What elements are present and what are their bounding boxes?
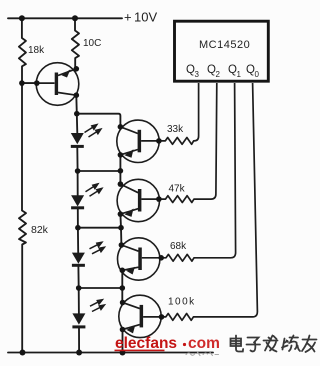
svg-text:33k: 33k	[167, 124, 184, 135]
svg-text:MC14520: MC14520	[199, 39, 250, 51]
svg-text:+: +	[124, 10, 132, 25]
svg-text:3: 3	[195, 70, 200, 79]
svg-text:elecfans: elecfans	[115, 335, 177, 352]
svg-text:2: 2	[216, 70, 221, 79]
svg-text:1: 1	[237, 70, 242, 79]
svg-text:0: 0	[255, 70, 260, 79]
svg-text:18k: 18k	[28, 45, 45, 56]
svg-text:68k: 68k	[170, 241, 187, 252]
svg-text:com: com	[188, 335, 220, 352]
svg-text:10C: 10C	[83, 38, 101, 49]
svg-text:47k: 47k	[169, 183, 186, 194]
svg-text:10V: 10V	[134, 10, 157, 25]
svg-text:82k: 82k	[31, 224, 49, 236]
svg-text:100k: 100k	[168, 296, 196, 307]
